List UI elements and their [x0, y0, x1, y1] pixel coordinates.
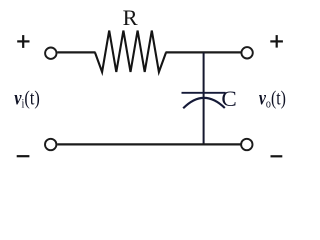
- node: top-left terminal: [45, 48, 56, 59]
- wire: capacitor branch vertical: [203, 52, 205, 144]
- capacitor C curved plate: [183, 98, 225, 108]
- svg-text:C: C: [221, 86, 236, 111]
- capacitor C top plate: [182, 92, 226, 94]
- wire: resistor to top-right terminal: [166, 51, 241, 53]
- svg-text:vi(t): vi(t): [14, 88, 40, 111]
- wire: top-left terminal to resistor: [57, 51, 95, 53]
- resistor R: [95, 31, 166, 73]
- wire: bottom rail: [57, 143, 240, 145]
- label: minus (bottom left): [17, 155, 30, 157]
- svg-text:vo(t): vo(t): [259, 88, 286, 111]
- node: bottom-right terminal: [241, 139, 252, 150]
- label: minus (bottom right): [271, 155, 283, 157]
- label: + (top right): [270, 35, 283, 48]
- label: + (top left): [17, 35, 29, 48]
- node: top-right terminal: [241, 47, 252, 58]
- svg-text:R: R: [123, 5, 138, 30]
- node: bottom-left terminal: [45, 139, 56, 150]
